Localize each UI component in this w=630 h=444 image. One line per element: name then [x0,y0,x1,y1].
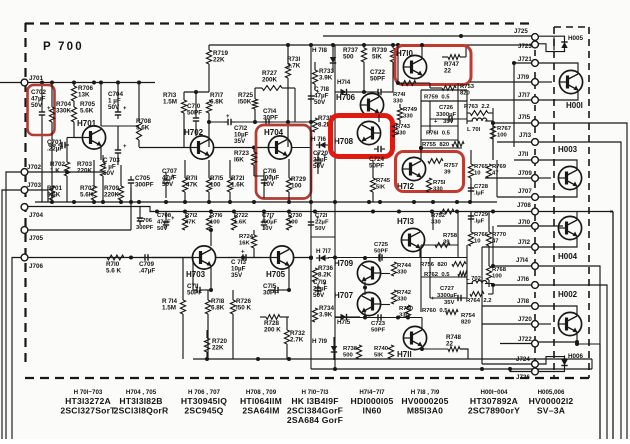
svg-text:100: 100 [291,183,302,190]
svg-text:2.7K: 2.7K [290,337,304,344]
wire H001 base [538,81,552,83]
supply bus wrap to right edge [610,212,613,440]
inductor L701 [467,118,487,133]
capacitor C708 47uF 50V [157,211,175,232]
connector J715 [518,114,538,126]
svg-text:10: 10 [474,239,481,245]
svg-text:l50K: l50K [238,99,252,106]
transistor H710 [396,49,427,79]
svg-text:J7l6: J7l6 [517,276,530,283]
svg-text:C72l: C72l [315,213,328,219]
svg-text:200 K: 200 K [264,327,281,334]
svg-text:R757: R757 [444,163,459,169]
capacitor C718 47uF 50V [308,86,330,106]
capacitor C720 22uF 50V [313,150,329,174]
capacitor C722 50PF [364,69,393,95]
ground bus rail upper [35,200,497,204]
wire J701 to input network [28,81,155,85]
svg-text:J7ll: J7ll [518,151,529,158]
wire J713 wrap [538,142,621,439]
svg-text:39: 39 [444,170,451,176]
svg-text:+: + [171,216,175,222]
capacitor C713 10uF 35V [228,250,262,280]
svg-text:50V: 50V [162,181,174,188]
svg-text:J726: J726 [516,374,530,381]
wire J725 left [323,36,532,37]
wire mid vertical B [311,45,335,369]
svg-text:3300µF: 3300µF [436,112,456,118]
wire H713 emitter to R758 [420,243,450,257]
resistor R764 2.2 [466,292,492,304]
resistor R729 100 [286,159,306,202]
svg-text:H002: H002 [558,290,578,299]
resistor R742 330 [391,290,411,304]
svg-text:J706: J706 [29,263,44,270]
svg-text:J720: J720 [518,316,532,323]
wire R708 to H702 base rail [139,146,311,150]
transistor H701 [77,119,106,149]
svg-text:820: 820 [460,91,471,97]
resistor R756 820 [420,262,466,268]
resistor R735 8.2K [312,115,333,132]
resistor R767 100 [490,124,511,160]
connector J709 [518,170,538,181]
svg-text:100: 100 [492,274,503,280]
wire J704 to bus [28,206,32,208]
svg-text:J709: J709 [518,170,532,177]
svg-text:C729: C729 [474,212,489,218]
resistor R723 16K [234,148,264,177]
svg-text:J722: J722 [518,336,532,343]
svg-text:47µF: 47µF [157,220,171,226]
svg-text:R730: R730 [288,213,303,219]
svg-text:50V: 50V [313,163,325,170]
resistor R719 22K [206,45,228,92]
resistor R726 150K [230,290,251,359]
capacitor C719 22uF 50V [313,279,328,299]
svg-text:200K: 200K [262,77,278,84]
wire J716 link [491,283,531,287]
svg-text:3.9K: 3.9K [319,75,333,82]
svg-text:5.6K: 5.6K [47,192,61,199]
resistor R751 330 [426,178,445,193]
capacitor C705 300PF [128,175,154,202]
diode H719 [312,337,337,360]
svg-text:.lµF: .lµF [474,219,485,225]
svg-text:H 7l8 , 7l9: H 7l8 , 7l9 [411,389,440,396]
diode H715 [335,314,360,326]
wire H710 emitter row [396,81,430,86]
resistor R737 500 [343,45,367,92]
svg-text:H704 , 705: H704 , 705 [126,389,157,396]
svg-text:R75l: R75l [433,180,446,186]
wire J721 link [512,61,531,147]
connector J707 [518,188,538,200]
wire driver emitters [363,256,390,320]
connector J716 [517,276,538,288]
svg-text:R722: R722 [234,213,249,219]
svg-text:.47µF: .47µF [139,268,155,275]
svg-text:5.6 K: 5.6 K [106,268,122,275]
svg-text:R753: R753 [460,84,475,90]
svg-text:H707: H707 [334,291,354,300]
resistor R720 22K [204,330,227,359]
svg-text:M85l3A0: M85l3A0 [407,405,443,415]
transistor H706 [336,93,384,117]
inductor L702 [466,276,487,284]
svg-text:R769: R769 [492,164,507,170]
resistor R717 6.8K [206,92,223,147]
connector J714 [516,257,538,269]
resistor R738 500 [343,345,362,359]
svg-text:100: 100 [288,220,299,226]
resistor R722 1.6K [231,213,248,230]
svg-text:J7l5: J7l5 [518,114,531,121]
svg-text:R745: R745 [376,178,391,184]
wire H004 emitter [538,236,577,247]
resistor R711 47K [182,160,198,202]
svg-text:+: + [226,114,230,120]
wire bottom rail 1 [193,357,592,361]
wire left edge stub [0,82,2,84]
capacitor C703 1uF 50V [103,126,127,177]
svg-text:R74l: R74l [393,92,406,98]
connector J701 [21,75,43,86]
svg-text:2.7K: 2.7K [287,63,301,70]
svg-text:35V: 35V [234,138,246,145]
board label P 700 [43,41,84,53]
svg-text:H7l4~7l7: H7l4~7l7 [359,389,385,396]
connector J706 [21,254,43,270]
resistor R708 5.6K [136,83,152,148]
highlight box around H712 [396,152,464,192]
wire H711 collector [335,316,422,331]
transistor H706 collector wires [362,90,379,97]
wire J714 wrap [538,266,600,439]
connector J704 [21,204,43,219]
wire C714 row [255,120,313,124]
resistor R727 200K [255,70,295,122]
svg-text:5lK: 5lK [376,185,386,191]
wire R748 link [420,347,448,351]
transistor H703 [186,246,216,279]
svg-text:330: 330 [393,99,404,105]
svg-text:2SCl3l8QorR: 2SCl3l8QorR [114,405,169,415]
svg-text:10: 10 [474,171,481,177]
svg-text:5lK: 5lK [372,54,382,61]
svg-text:47K: 47K [185,220,197,226]
svg-text:50V: 50V [313,292,325,299]
resistor R754 820 [446,310,482,326]
svg-text:J7l2: J7l2 [518,239,531,246]
svg-text:H708 , 709: H708 , 709 [246,389,277,396]
capacitor C716 100uF 10V [261,168,280,198]
svg-text:50V: 50V [314,99,326,106]
resistor R768 100 [486,246,506,287]
capacitor C711 50PF [187,258,211,297]
svg-text:H00l: H00l [566,101,583,110]
capacitor C706 300PF [136,207,154,232]
svg-text:J725: J725 [514,28,528,35]
dashed output-stage box right edge [588,27,590,378]
connector J703 [21,182,41,193]
svg-text:R7l2: R7l2 [185,213,198,219]
resistor R755 820 [422,142,464,148]
svg-text:50PF: 50PF [369,163,384,170]
svg-text:6.8K: 6.8K [210,99,224,106]
svg-text:47: 47 [492,171,499,177]
svg-text:H005,006: H005,006 [538,389,565,396]
svg-text:J704: J704 [29,212,44,219]
svg-text:H00l~004: H00l~004 [480,389,508,396]
resistor R716 100 [206,213,223,230]
capacitor C717 100uF 10V [261,211,278,232]
svg-text:35V: 35V [443,119,454,125]
svg-text:+: + [434,119,438,125]
svg-text:8.2K: 8.2K [318,272,332,279]
resistor R739 51K [372,45,396,92]
svg-text:J707: J707 [518,188,532,195]
svg-text:300PF: 300PF [135,182,154,189]
connector J708 [517,202,538,215]
svg-text:H005: H005 [568,35,584,42]
svg-text:2SC945Q: 2SC945Q [184,405,223,415]
svg-text:1.6K: 1.6K [234,220,247,226]
svg-text:22µF: 22µF [315,220,329,226]
resistor R753 820 [430,83,475,97]
wire H002 emitter [538,332,579,344]
resistor R713 1.5M [163,92,187,147]
wire H706 emitter [378,114,380,122]
resistor R712 47K [182,213,198,230]
svg-text:220K: 220K [104,192,120,199]
svg-text:2SC7890orY: 2SC7890orY [468,405,520,415]
svg-text:2SCl327SorT: 2SCl327SorT [60,405,116,415]
svg-text:+: + [123,144,127,150]
svg-text:H705: H705 [266,270,286,279]
connector J710 [518,219,538,229]
svg-text:16K: 16K [239,241,251,247]
diode H714 [335,79,364,95]
capacitor C710 50PF [187,92,202,136]
resistor R718 6.8K [205,290,224,359]
wire H002 emitter to right [575,342,600,439]
wire driver column 1 [397,45,399,84]
svg-text:50V: 50V [315,226,326,232]
svg-text:1.5M: 1.5M [162,305,176,312]
resistor R732 2.7K [284,317,305,359]
resistor R770 47 [486,212,506,247]
svg-text:C726: C726 [439,105,454,111]
svg-text:30PF: 30PF [263,290,278,297]
svg-text:R760 0.5: R760 0.5 [422,308,448,314]
wire H003 emitter [538,186,577,197]
svg-text:J724: J724 [516,356,530,363]
svg-text:H003: H003 [558,145,578,154]
wire J707 link [497,160,531,197]
svg-text:2SA64lM: 2SA64lM [242,405,279,415]
capacitor C704 1uF 50V [108,83,127,120]
svg-text:6.8K: 6.8K [211,305,225,312]
svg-text:C706: C706 [138,218,153,224]
wire J713 link [497,141,531,143]
wire H004 base [538,225,551,227]
svg-text:L 70l: L 70l [467,127,481,133]
capacitor C707 47uF 50V [162,168,178,198]
wire H703 base rail [129,256,313,260]
diode H006 [539,353,584,372]
wire J716 wrap [538,285,607,439]
transistor H003 [558,145,582,190]
svg-text:R754: R754 [461,313,476,319]
wire J712 link [482,246,531,248]
wire J710 link [497,225,531,227]
svg-text:H 7l8: H 7l8 [312,47,328,54]
svg-text:500: 500 [343,353,354,359]
capacitor C715 30PF [263,283,289,297]
dashed output-stage box left edge [553,27,555,378]
svg-text:H 706 , 707: H 706 , 707 [188,389,221,396]
resistor R701 5.6K [47,185,63,200]
svg-text:C725: C725 [374,242,389,248]
resistor R728 200K [260,315,289,334]
svg-text:3.9K: 3.9K [319,312,333,319]
svg-text:R768: R768 [492,267,507,273]
diode H005 [538,35,584,52]
svg-text:R756 820: R756 820 [420,262,448,268]
svg-text:35V: 35V [444,300,455,306]
resistor R721 1.6K [227,160,244,202]
resistor R758 39 [443,233,458,246]
svg-text:R724: R724 [239,234,254,240]
capacitor C714 30PF [262,108,278,125]
connector J726 [516,368,538,381]
resistor R749 330 [397,104,417,124]
connector J720 [518,316,538,327]
svg-text:10V: 10V [262,226,273,232]
svg-text:C727: C727 [440,286,455,292]
wire mid vertical A [310,45,312,258]
svg-text:H004: H004 [558,252,578,261]
svg-text:J7l8: J7l8 [517,298,530,305]
svg-text:SV–3A: SV–3A [537,405,565,415]
svg-text:1 K: 1 K [50,168,60,175]
svg-text:50PF: 50PF [371,328,385,334]
resistor R757 39 [425,159,459,176]
svg-text:+: + [123,106,127,112]
wire H701 emitter [100,146,102,160]
svg-text:5.6K: 5.6K [80,192,94,199]
rail to J725 [323,34,535,38]
wire H003 base [538,177,551,179]
connector J722 [518,336,538,347]
svg-text:J703: J703 [27,182,42,189]
svg-text:H 7l9: H 7l9 [312,338,328,345]
wire lower cell verticals [421,213,482,364]
svg-text:5lK: 5lK [374,353,384,359]
highlight box around H704 [256,125,311,199]
resistor R707 5.6K [80,160,97,200]
highlight box around C702 [28,85,55,135]
wire J709 link [485,177,531,179]
resistor R752 330 [431,209,454,225]
svg-text:R750: R750 [399,306,414,312]
transistor H001 [559,70,583,110]
wire J717 link [470,99,531,101]
svg-text:l50 K: l50 K [236,305,252,312]
capacitor C723 50PF [371,314,386,333]
svg-text:H708: H708 [334,137,354,146]
wire cell C726 row [430,101,467,133]
wire H002 collector [538,306,577,316]
resistor R750 330 [399,305,414,319]
svg-text:47K: 47K [186,182,198,189]
svg-text:13K: 13K [78,92,90,99]
svg-text:R763 2.2: R763 2.2 [464,104,490,110]
svg-text:C723: C723 [371,321,386,327]
connector J713 [519,132,538,145]
svg-text:H 70l~703: H 70l~703 [74,389,103,396]
wire H004 collector [538,212,577,227]
resistor R740 51K [374,345,394,359]
connector J718 [517,298,538,309]
svg-text:330: 330 [397,270,408,276]
svg-text:J702: J702 [27,164,42,171]
resistor R747 22 [442,45,466,75]
svg-text:330K: 330K [56,108,72,115]
svg-text:1.6K: 1.6K [231,182,245,189]
transistor H711 [397,326,427,359]
svg-text:22: 22 [444,68,452,75]
wire bottom rail wrap [591,359,593,369]
wire J702 to R702/R703 [28,170,103,174]
svg-text:H709: H709 [334,259,354,268]
svg-text:R767: R767 [497,126,512,132]
wire cell R761 rows [421,83,458,148]
wire H001 collector [538,63,578,74]
wire J706 return [12,258,21,440]
dashed board outline bottom edge [25,377,592,379]
resistor R704 330K [49,83,71,203]
resistor R744 330 [391,262,411,276]
svg-text:C728: C728 [474,184,489,190]
wire J718 link [482,305,531,307]
wire J706 to H703 base rail [28,257,193,259]
svg-text:L 702: L 702 [466,276,482,282]
wire L702 row [467,283,493,285]
wire H705 emitter down [287,267,291,292]
transistor H708 [334,121,381,146]
svg-text:H7l4: H7l4 [337,79,351,86]
svg-text:I00µF: I00µF [262,220,278,226]
wire L701 row [467,108,493,124]
svg-text:J708: J708 [517,202,531,209]
svg-text:C7l7: C7l7 [262,213,275,219]
svg-text:.22µF: .22µF [47,146,63,153]
diode H716 [311,136,329,148]
svg-text:H703: H703 [186,270,206,279]
resistor R702 1K [50,150,70,202]
capacitor C702 electrolytic [31,83,51,203]
svg-text:50V: 50V [157,226,168,232]
resistor R730 100 [286,213,302,230]
wire cell R759 box [421,90,467,148]
resistor R761 0.5 [426,131,451,137]
svg-text:J7l4: J7l4 [516,257,529,264]
diode H718 [312,45,336,72]
capacitor C728 .1uF [468,184,489,197]
svg-text:330: 330 [403,114,414,120]
